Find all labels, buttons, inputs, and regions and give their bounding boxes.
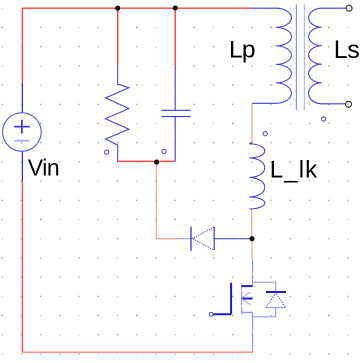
wire: snubber bottom R to C [118, 160, 175, 162]
wire: Lp bottom to L_lk top [251, 104, 253, 143]
body diode cathode bar [266, 291, 286, 293]
wire top: Vin+ to transformer [22, 7, 252, 9]
capacitor C1 (snubber) [162, 66, 191, 161]
voltage source V1 circle [3, 113, 42, 152]
wire: resistor top drop [117, 8, 119, 64]
resistor origin circle [105, 150, 109, 154]
svg-text:Vin: Vin [28, 155, 59, 181]
L_lk origin circle [263, 132, 267, 136]
diode D1 (points left) leads [176, 238, 191, 240]
resistor R1 (snubber) [106, 65, 129, 162]
capacitor origin circle [162, 149, 166, 153]
junction dot snubber bottom node [154, 160, 159, 165]
MOSFET gate bar [230, 283, 232, 314]
transformer primary Lp winding [252, 8, 291, 103]
MOSFET source lead down [252, 313, 254, 353]
svg-text:Lp: Lp [229, 37, 255, 64]
MOSFET bulk arrow [241, 298, 252, 300]
diode D1 triangle [213, 227, 215, 250]
wire: L_lk bottom to diode node [251, 209, 253, 239]
transformer core lines [295, 5, 297, 111]
voltage source bottom lead [21, 151, 23, 181]
svg-text:L_lk: L_lk [270, 157, 318, 184]
MOSFET gate terminal circle [209, 312, 213, 316]
wire: mid vertical snubber to diode [155, 161, 157, 238]
wire: diode node down to MOSFET drain [251, 239, 253, 259]
junction dot diode/L_lk/drain node [249, 236, 254, 241]
MOSFET gate lead [213, 313, 231, 315]
Ls origin circle [322, 117, 326, 121]
Ls bottom terminal circle [346, 101, 352, 107]
MOSFET M1 drain lead (pale) [252, 259, 254, 286]
wire left: down from top-left corner to Vin [21, 8, 23, 83]
MOSFET body diode frame (pale box) [253, 282, 276, 317]
voltage source top lead [21, 83, 23, 112]
body diode triangle [266, 307, 286, 309]
MOSFET source bar [242, 312, 253, 314]
junction dot top resistor node [115, 6, 120, 11]
Ls top terminal circle [346, 5, 352, 11]
minus sign [15, 140, 30, 142]
MOSFET drain bar [242, 285, 253, 287]
leakage inductor L_lk [249, 143, 264, 210]
wire bottom rail [22, 351, 252, 353]
junction dot top cap node [173, 5, 178, 10]
wire left lower: Vin- down to bottom rail [21, 181, 23, 352]
MOSFET channel segments [241, 283, 243, 314]
transformer secondary Ls winding [309, 8, 346, 104]
diode D1 cathode bar [190, 227, 192, 251]
wire: diode row left segment [156, 238, 176, 240]
svg-text:Ls: Ls [334, 36, 360, 64]
plus sign [14, 120, 30, 134]
wire: cap top drop [174, 8, 176, 66]
